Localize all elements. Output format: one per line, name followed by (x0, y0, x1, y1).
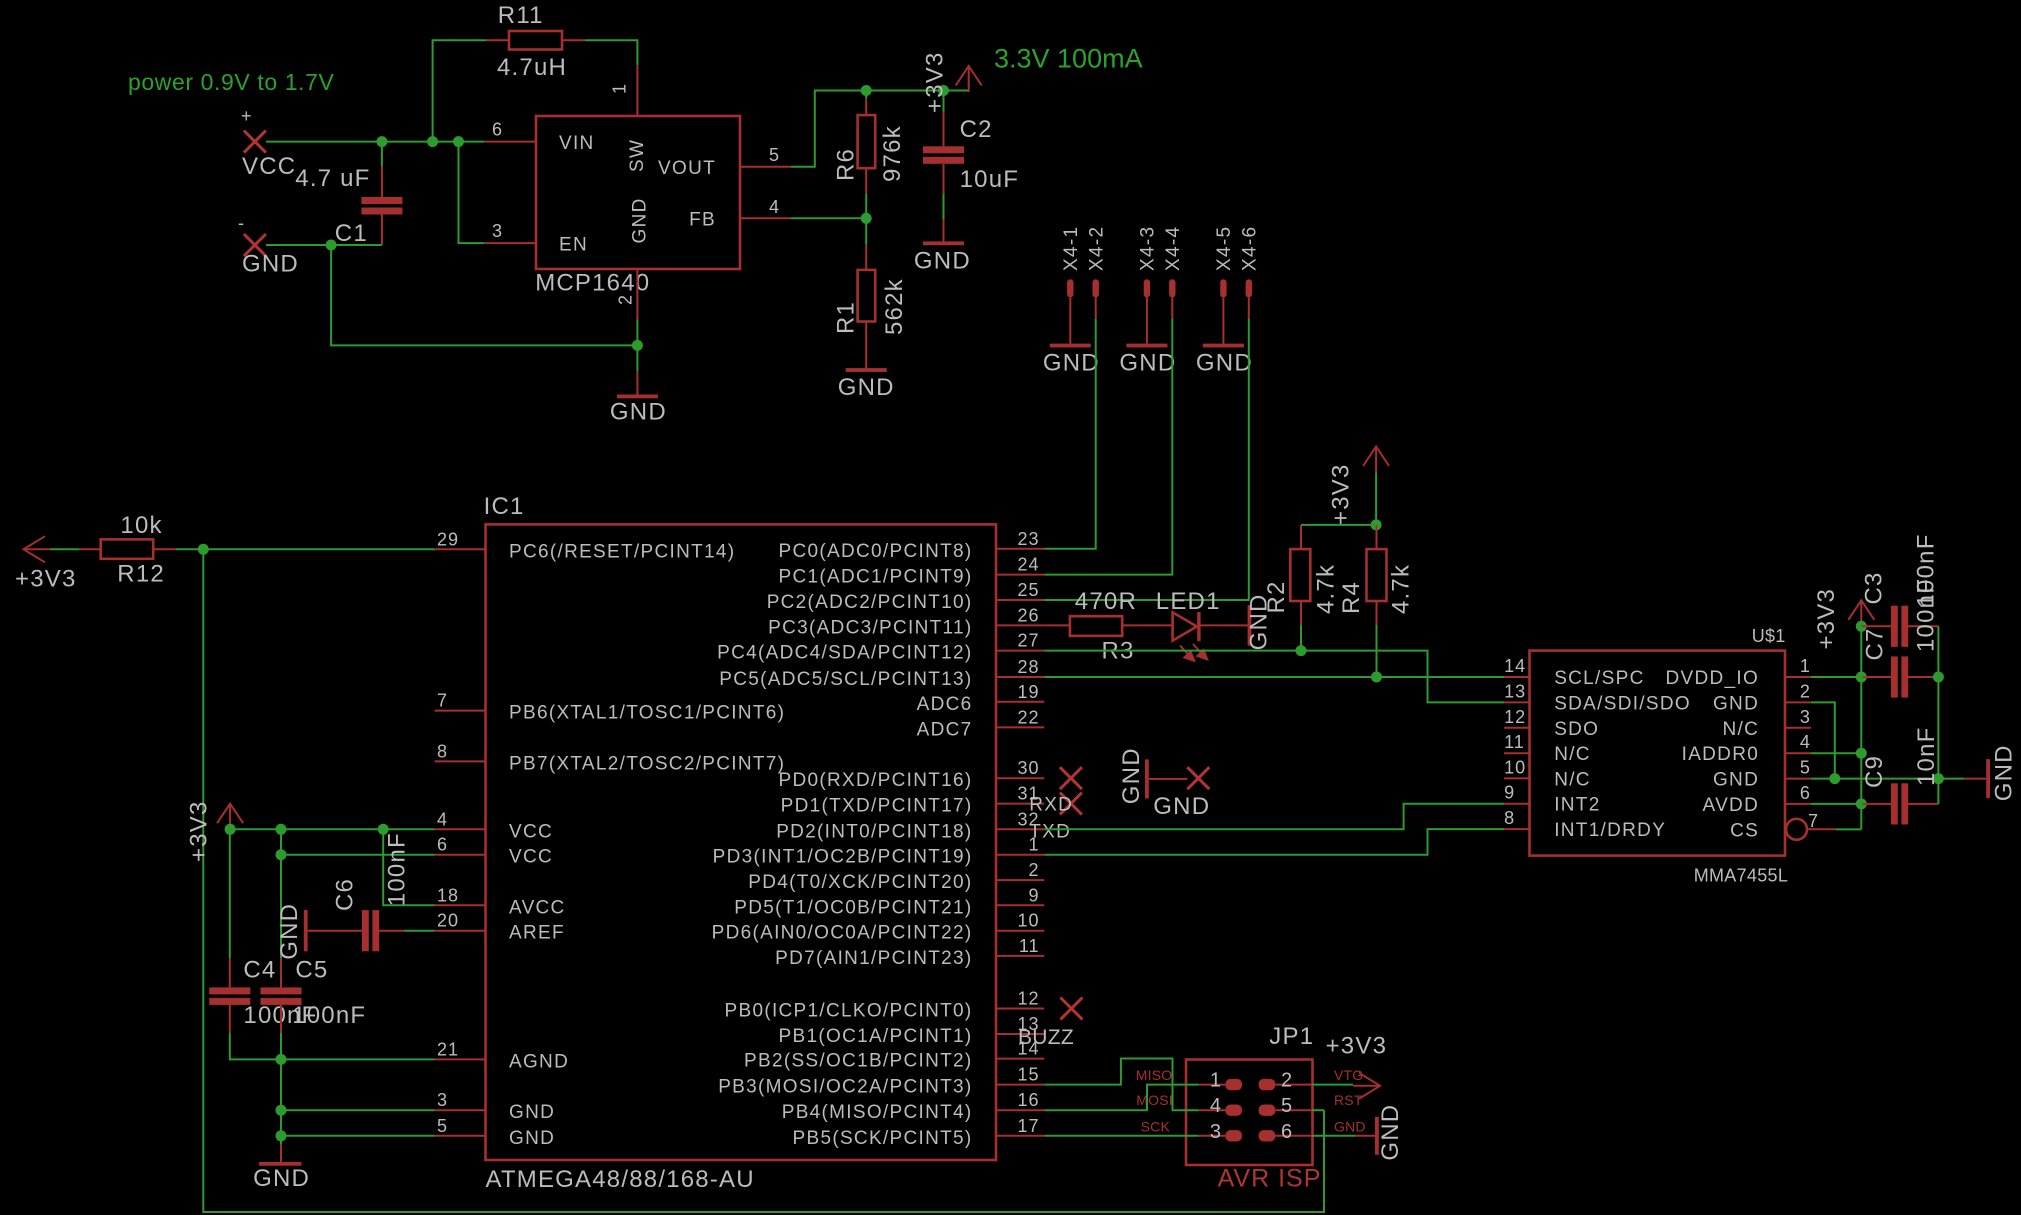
pin 8 INT1/DRDY (1504, 808, 1666, 841)
svg-text:470R: 470R (1075, 588, 1137, 615)
svg-text:VIN: VIN (559, 133, 595, 154)
svg-text:PD3(INT1/OC2B/PCINT19): PD3(INT1/OC2B/PCINT19) (713, 847, 973, 868)
wire VCC row (230, 828, 435, 830)
svg-text:GND: GND (914, 247, 971, 274)
svg-text:6: 6 (1281, 1121, 1293, 1143)
svg-text:PD5(T1/OC0B/PCINT21): PD5(T1/OC0B/PCINT21) (734, 897, 972, 918)
svg-text:GND: GND (610, 399, 667, 426)
svg-text:R4: R4 (1338, 581, 1365, 614)
svg-text:INT2: INT2 (1554, 795, 1600, 816)
svg-text:DVDD_IO: DVDD_IO (1666, 668, 1760, 689)
wire X4-1 to gnd (1069, 297, 1071, 343)
pin 14 PB2(SS/OC1B/PCINT2) (744, 1039, 1044, 1072)
svg-text:+3V3: +3V3 (1813, 588, 1840, 650)
svg-text:3: 3 (437, 1090, 448, 1110)
svg-text:26: 26 (1017, 605, 1039, 625)
svg-text:1: 1 (1800, 656, 1811, 676)
svg-text:N/C: N/C (1722, 719, 1759, 740)
svg-text:PD2(INT0/PCINT18): PD2(INT0/PCINT18) (776, 821, 972, 842)
svg-text:+3V3: +3V3 (1327, 463, 1354, 525)
wire AVCC branch (383, 829, 434, 905)
svg-text:1: 1 (1210, 1070, 1222, 1092)
pin 1 JP1 left (1199, 1070, 1242, 1092)
svg-text:C4: C4 (243, 957, 276, 984)
svg-text:5: 5 (1281, 1095, 1293, 1117)
supply +3V3 (right) (1813, 588, 1874, 650)
svg-text:14: 14 (1504, 656, 1526, 676)
pin 23 PC0(ADC0/PCINT8) (779, 529, 1045, 562)
wire GND to C1 (266, 244, 382, 246)
supply +3V3 (left arrow) (15, 536, 77, 592)
pin 5 GND (435, 1116, 556, 1149)
svg-text:R2: R2 (1263, 580, 1290, 613)
svg-text:VTG: VTG (1334, 1067, 1363, 1083)
pin 10 N/C (1504, 757, 1591, 790)
svg-text:11: 11 (1504, 732, 1525, 752)
wire CS tie (1836, 828, 1861, 830)
wire pin2 gnd (1811, 702, 1835, 778)
wire VTG to 3v3 (1312, 1084, 1353, 1086)
svg-text:976k: 976k (879, 125, 906, 182)
pin 21 AGND (435, 1039, 570, 1072)
pin 5 VOUT (658, 145, 791, 179)
svg-text:PB7(XTAL2/TOSC2/PCINT7): PB7(XTAL2/TOSC2/PCINT7) (509, 753, 785, 774)
pin 4 IADDR0 (1682, 732, 1811, 765)
svg-text:ADC7: ADC7 (917, 719, 973, 740)
connector pad X4-6 (1240, 226, 1261, 298)
wire VCC to VIN (266, 141, 484, 143)
resistor R2 4.7k (1263, 525, 1339, 625)
svg-text:N/C: N/C (1554, 769, 1591, 790)
svg-text:27: 27 (1017, 631, 1039, 651)
svg-text:8: 8 (1504, 808, 1515, 828)
pin 5 JP1 right (1259, 1095, 1312, 1117)
svg-text:BUZZ: BUZZ (1018, 1026, 1074, 1049)
pin 24 PC1(ADC1/PCINT9) (779, 555, 1045, 588)
pin 14 SCL/SPC (1504, 656, 1645, 689)
node junction GND3 (276, 1105, 287, 1116)
pin 2 JP1 right (1259, 1070, 1312, 1092)
svg-text:4.7k: 4.7k (1387, 564, 1414, 614)
supply +3V3 (bottom left) (185, 800, 243, 862)
pin 25 PC2(ADC2/PCINT10) (767, 580, 1045, 613)
svg-text:7: 7 (437, 691, 448, 711)
no-connect pin30 (1060, 767, 1082, 789)
svg-text:13: 13 (1504, 681, 1526, 701)
svg-text:2: 2 (1800, 681, 1811, 701)
wire DVDD row (1811, 676, 1860, 678)
ground GND bottom left (253, 1144, 310, 1192)
svg-text:C7: C7 (1862, 627, 1889, 660)
connector JP1 AVR ISP frame (1186, 1023, 1321, 1193)
node junction VCC2 (276, 849, 287, 860)
ground GND at LED1 (rotated) (1245, 593, 1272, 650)
ground GND middle (rotated) (1118, 747, 1210, 820)
ground GND at C6 (rotated) (276, 903, 308, 960)
svg-text:PC0(ADC0/PCINT8): PC0(ADC0/PCINT8) (779, 541, 973, 562)
pin 22 ADC7 (917, 707, 1045, 740)
svg-text:7: 7 (1808, 811, 1819, 831)
svg-text:29: 29 (437, 529, 459, 549)
wire R11 to SW (585, 40, 637, 65)
svg-text:X4-1: X4-1 (1061, 226, 1082, 271)
svg-text:GND: GND (242, 251, 299, 278)
wire AGND row (281, 1058, 435, 1060)
supply +3V3 (JP1) (1326, 1033, 1388, 1099)
wire X4-2 stub (1095, 297, 1097, 318)
capacitor C9 10nF (1861, 726, 1940, 824)
svg-text:PD0(RXD/PCINT16): PD0(RXD/PCINT16) (779, 770, 973, 791)
pin 6 VCC (435, 835, 553, 868)
connector pad X4-4 (1163, 226, 1184, 298)
node junction GND5 (276, 1130, 287, 1141)
svg-text:PC2(ADC2/PCINT10): PC2(ADC2/PCINT10) (767, 592, 973, 613)
svg-text:GND: GND (253, 1165, 310, 1192)
svg-text:GND: GND (1043, 350, 1100, 377)
node junction C1 top (376, 136, 387, 147)
wire C1 top (381, 142, 383, 167)
capacitor C7 100nF (1861, 578, 1939, 698)
wire IADDR0 (1811, 752, 1861, 754)
pin 31 PD1(TXD/PCINT17) (781, 784, 1045, 817)
svg-text:GND: GND (509, 1128, 555, 1149)
svg-text:SDA/SDI/SDO: SDA/SDI/SDO (1554, 693, 1691, 714)
pin 7 CS (1730, 811, 1836, 841)
wire R12 to pin29 (176, 548, 435, 550)
svg-text:RXD: RXD (1029, 795, 1073, 816)
pin 13 PB1(OC1A/PCINT1) (779, 1014, 1045, 1047)
svg-text:X4-5: X4-5 (1214, 226, 1235, 271)
node junction EN (453, 136, 464, 147)
svg-text:GND: GND (838, 374, 895, 401)
svg-text:TXD: TXD (1029, 821, 1071, 842)
node junction gnd2 (1829, 773, 1840, 784)
no-connect pin31 (1060, 793, 1082, 815)
svg-text:6: 6 (492, 120, 503, 140)
svg-text:GND: GND (1119, 350, 1176, 377)
svg-text:18: 18 (437, 885, 459, 905)
svg-text:10nF: 10nF (1913, 726, 1940, 786)
node junction R2 bottom (1296, 645, 1307, 656)
svg-text:X4-6: X4-6 (1240, 226, 1261, 271)
svg-text:MCP1640: MCP1640 (535, 270, 650, 297)
svg-text:PD1(TXD/PCINT17): PD1(TXD/PCINT17) (781, 796, 973, 817)
svg-text:U$1: U$1 (1752, 626, 1786, 646)
svg-text:SCL/SPC: SCL/SPC (1554, 668, 1644, 689)
svg-text:ADC6: ADC6 (917, 694, 973, 715)
svg-text:GND: GND (1334, 1118, 1366, 1134)
resistor R12 10k (80, 512, 176, 587)
pin 19 ADC6 (917, 682, 1045, 715)
pin 2 PD4(T0/XCK/PCINT20) (748, 860, 1044, 893)
svg-text:2: 2 (1028, 860, 1039, 880)
wire MISO (1044, 1085, 1199, 1111)
pin 17 PB5(SCK/PCINT5) (793, 1116, 1045, 1149)
svg-text:PC6(/RESET/PCINT14): PC6(/RESET/PCINT14) (509, 541, 735, 562)
svg-text:3.3V 100mA: 3.3V 100mA (994, 43, 1143, 73)
svg-text:30: 30 (1017, 758, 1039, 778)
svg-text:IC1: IC1 (484, 493, 525, 520)
inductor R11 (487, 2, 585, 81)
wire VOUT to top rail (791, 91, 969, 167)
capacitor C3 100nF (1861, 533, 1940, 646)
pin 26 PC3(ADC3/PCINT11) (768, 605, 1044, 638)
supply flag VCC (241, 106, 296, 180)
svg-text:15: 15 (1017, 1065, 1039, 1085)
svg-text:19: 19 (1017, 682, 1039, 702)
svg-text:16: 16 (1017, 1090, 1039, 1110)
svg-text:GND: GND (1713, 693, 1759, 714)
pin 11 PD7(AIN1/PCINT23) (775, 936, 1044, 969)
wire X4-6 stub (1248, 297, 1250, 318)
wire gnd to symbol (1938, 778, 1964, 780)
svg-text:power 0.9V to 1.7V: power 0.9V to 1.7V (128, 69, 334, 95)
pin 15 PB3(MOSI/OC2A/PCINT3) (718, 1065, 1044, 1098)
node junction FB (861, 213, 872, 224)
wire gnd down (280, 1136, 282, 1144)
pin 29 PC6(/RESET/PCINT14) (435, 529, 736, 562)
svg-text:AVR ISP: AVR ISP (1218, 1165, 1322, 1193)
wire TXD to INT2 (1044, 804, 1504, 830)
svg-text:C9: C9 (1861, 755, 1888, 788)
pin 20 AREF (435, 911, 565, 944)
svg-text:GND: GND (629, 197, 650, 243)
svg-text:AVDD: AVDD (1703, 795, 1760, 816)
svg-text:10uF: 10uF (960, 166, 1020, 193)
wire R6 top (865, 91, 867, 99)
svg-text:3: 3 (1210, 1121, 1222, 1143)
svg-text:PB2(SS/OC1B/PCINT2): PB2(SS/OC1B/PCINT2) (744, 1051, 972, 1072)
pin 3 EN (484, 221, 588, 255)
capacitor C6 100nF (308, 832, 411, 951)
svg-text:3: 3 (1800, 707, 1811, 727)
svg-text:25: 25 (1017, 580, 1039, 600)
pin 4 VCC (435, 809, 553, 842)
svg-text:100nF: 100nF (1913, 578, 1940, 652)
svg-text:23: 23 (1017, 529, 1039, 549)
capacitor C4 100nF (209, 957, 317, 1033)
svg-text:GND: GND (1713, 770, 1759, 791)
wire C2 top (943, 91, 945, 112)
svg-text:3: 3 (492, 221, 503, 241)
node junction AVCC (378, 824, 389, 835)
ground GND below X4-1 (1043, 344, 1100, 377)
svg-text:9: 9 (1504, 783, 1515, 803)
svg-text:4.7 uF: 4.7 uF (295, 165, 370, 192)
svg-text:4: 4 (769, 197, 780, 217)
node junction MCP GND (632, 340, 643, 351)
pin 6 JP1 right (1259, 1121, 1312, 1143)
svg-text:2: 2 (616, 294, 636, 305)
pin 8 PB7(XTAL2/TOSC2/PCINT7) (435, 741, 786, 774)
svg-text:X4-3: X4-3 (1138, 226, 1159, 271)
wire SCK (1044, 1135, 1199, 1137)
svg-text:R1: R1 (832, 301, 859, 334)
svg-text:AGND: AGND (509, 1051, 569, 1072)
pin 30 PD0(RXD/PCINT16) (779, 758, 1045, 791)
svg-text:LED1: LED1 (1156, 588, 1221, 615)
svg-text:MMA7455L: MMA7455L (1694, 866, 1788, 886)
svg-text:1: 1 (610, 83, 630, 94)
pin 9 INT2 (1504, 783, 1600, 816)
svg-text:JP1: JP1 (1269, 1023, 1314, 1050)
wire X4-4 stub (1171, 297, 1173, 318)
node junction C2 top (938, 85, 949, 96)
wire R2 bottom (1300, 625, 1302, 651)
svg-text:PC5(ADC5/SCL/PCINT13): PC5(ADC5/SCL/PCINT13) (719, 669, 972, 690)
svg-text:VCC: VCC (242, 153, 296, 180)
svg-text:4: 4 (1800, 732, 1811, 752)
supply +3V3 (pullups) (1327, 447, 1389, 526)
node junction 3v3 right (1856, 621, 1867, 632)
wire C6 to AREF (404, 930, 435, 932)
diode LED1 (1156, 588, 1248, 661)
node junction R4 bottom (1371, 672, 1382, 683)
svg-text:22: 22 (1017, 707, 1039, 727)
connector pad X4-1 (1061, 226, 1082, 298)
pin 12 PB0(ICP1/CLKO/PCINT0) (725, 989, 1045, 1022)
wire PD3 to INT1 (1044, 829, 1504, 855)
supply flag GND (input) (238, 213, 299, 278)
svg-text:12: 12 (1017, 989, 1039, 1009)
svg-text:PC4(ADC4/SDA/PCINT12): PC4(ADC4/SDA/PCINT12) (717, 643, 972, 664)
wire X4-2 to pin23 (1044, 319, 1096, 549)
wire SCL pin28 (1044, 676, 1504, 678)
svg-text:+3V3: +3V3 (1326, 1033, 1388, 1060)
wire C2 bottom (943, 193, 945, 220)
wire X4-4 to pin24 (1044, 319, 1172, 575)
svg-text:5: 5 (769, 145, 780, 165)
wire gnd vertical right (1937, 626, 1939, 804)
ground GND below X4-5 (1196, 344, 1253, 377)
pin 6 AVDD (1703, 783, 1811, 816)
svg-text:VOUT: VOUT (658, 158, 716, 179)
svg-text:21: 21 (437, 1039, 459, 1059)
ground GND below X4-3 (1119, 344, 1176, 377)
svg-text:2: 2 (1281, 1070, 1293, 1092)
pin 4 JP1 left (1199, 1095, 1242, 1117)
wire MOSI (1044, 1059, 1199, 1111)
wire RST (1312, 1109, 1324, 1111)
svg-text:VCC: VCC (509, 821, 553, 842)
pin 3 GND (435, 1090, 556, 1123)
wire FB (791, 217, 866, 219)
node junction AGND (276, 1054, 287, 1065)
pin 16 PB4(MISO/PCINT4) (782, 1090, 1044, 1123)
svg-text:SCK: SCK (1141, 1118, 1171, 1134)
node junction R11 (427, 136, 438, 147)
connector pad X4-5 (1214, 226, 1235, 298)
svg-text:CS: CS (1730, 820, 1759, 841)
ground GND below R1 (838, 368, 895, 401)
ground GND below MCP (610, 371, 667, 425)
svg-text:10: 10 (1017, 911, 1039, 931)
svg-text:12: 12 (1504, 707, 1526, 727)
svg-text:C6: C6 (331, 878, 358, 911)
wire gnd row right (1811, 778, 1939, 780)
svg-text:GND: GND (1118, 747, 1145, 804)
svg-text:N/C: N/C (1554, 744, 1591, 765)
pin 18 AVCC (435, 885, 566, 918)
node junction C1 gnd (326, 240, 337, 251)
wire MCP GND to ground (636, 320, 638, 372)
svg-text:SDO: SDO (1554, 719, 1599, 740)
node junction R6 top (861, 85, 872, 96)
svg-text:PB1(OC1A/PCINT1): PB1(OC1A/PCINT1) (779, 1026, 973, 1047)
pin 32 PD2(INT0/PCINT18) (776, 809, 1044, 842)
svg-text:24: 24 (1017, 555, 1039, 575)
svg-text:INT1/DRDY: INT1/DRDY (1554, 820, 1666, 841)
svg-text:6: 6 (437, 835, 448, 855)
wire to R2 (1301, 524, 1376, 526)
wire R1 top (865, 218, 867, 245)
pin 2 GND (616, 197, 651, 319)
svg-text:4: 4 (1210, 1095, 1222, 1117)
svg-text:PD4(T0/XCK/PCINT20): PD4(T0/XCK/PCINT20) (748, 872, 972, 893)
svg-text:10: 10 (1504, 757, 1526, 777)
wire EN loop (459, 142, 485, 244)
svg-text:GND: GND (276, 903, 303, 960)
svg-text:8: 8 (437, 741, 448, 761)
pin 12 SDO (1504, 707, 1599, 740)
svg-text:FB: FB (689, 210, 716, 231)
svg-text:GND: GND (1153, 793, 1210, 820)
svg-text:+3V3: +3V3 (15, 565, 77, 592)
svg-text:PB0(ICP1/CLKO/PCINT0): PB0(ICP1/CLKO/PCINT0) (725, 1001, 973, 1022)
wire C5 bottom (280, 1033, 282, 1059)
svg-text:100nF: 100nF (292, 1002, 366, 1029)
svg-text:GND: GND (1990, 744, 2017, 801)
pin 28 PC5(ADC5/SCL/PCINT13) (719, 657, 1044, 690)
resistor R1 562k (832, 245, 908, 369)
wire 3v3 vertical right (1860, 626, 1862, 829)
svg-text:-: - (238, 213, 244, 233)
wire VCC2 branch (281, 829, 435, 854)
svg-text:5: 5 (437, 1116, 448, 1136)
svg-text:AREF: AREF (509, 923, 565, 944)
svg-text:6: 6 (1800, 783, 1811, 803)
wire C4 top (229, 829, 231, 958)
pin 10 PD6(AIN0/OC0A/PCINT22) (712, 911, 1045, 944)
svg-text:+: + (241, 106, 252, 126)
pin 2 GND (1713, 681, 1811, 714)
IC U$1 MMA7455L (1530, 626, 1789, 886)
svg-text:5: 5 (1800, 758, 1811, 778)
wire R6 to FB (865, 193, 867, 218)
pin 1 SW (610, 65, 649, 172)
svg-text:MISO: MISO (1136, 1067, 1173, 1083)
wire X4-6 to pin25 (1044, 319, 1249, 600)
pin 5 GND (1713, 758, 1811, 791)
no-connect pin12 (1060, 998, 1082, 1020)
svg-text:28: 28 (1017, 657, 1039, 677)
svg-text:PB6(XTAL1/TOSC1/PCINT6): PB6(XTAL1/TOSC1/PCINT6) (509, 703, 785, 724)
svg-text:PC1(ADC1/PCINT9): PC1(ADC1/PCINT9) (779, 567, 973, 588)
pin 7 PB6(XTAL1/TOSC1/PCINT6) (435, 691, 786, 724)
wire gnd rows (281, 1059, 435, 1110)
pin 1 PD3(INT1/OC2B/PCINT19) (713, 835, 1045, 868)
svg-text:4.7uH: 4.7uH (497, 54, 567, 81)
svg-text:GND: GND (1196, 350, 1253, 377)
wire R11 left (433, 40, 487, 141)
svg-text:100nF: 100nF (383, 832, 410, 906)
ground GND right (rotated) (1964, 744, 2017, 801)
node junction AVDD (1856, 798, 1867, 809)
wire X4-3 to gnd (1146, 297, 1148, 343)
resistor R4 4.7k (1338, 525, 1415, 625)
node junction C4 (276, 824, 287, 835)
ground GND at JP1 (rotated) (1356, 1104, 1404, 1161)
